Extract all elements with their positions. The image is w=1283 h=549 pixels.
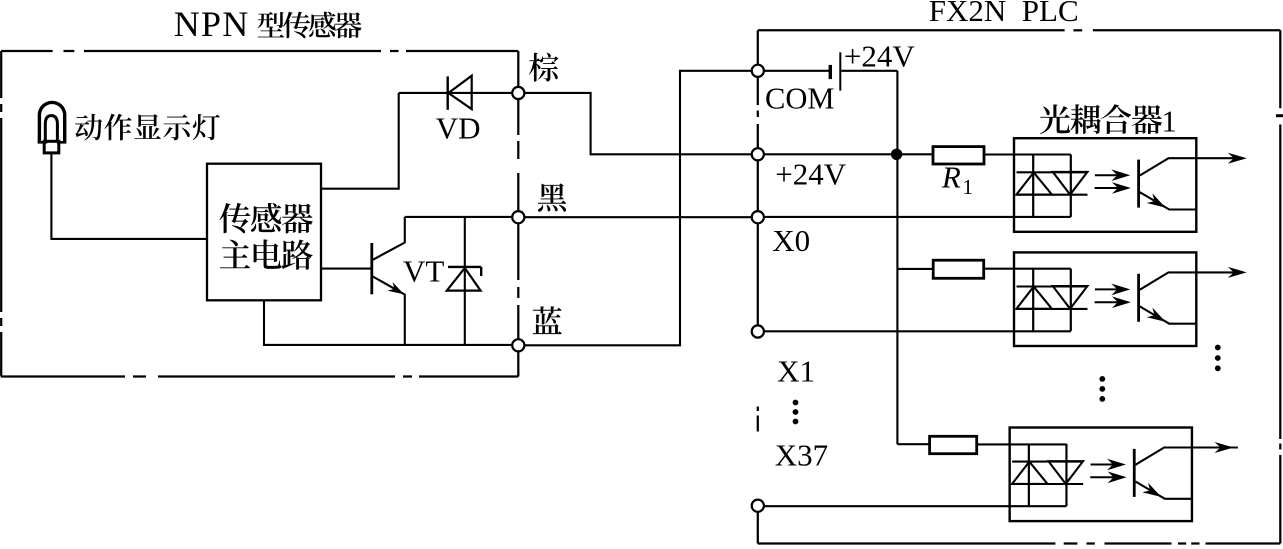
terminal X37: [752, 500, 764, 512]
optocoupler 3 phototransistor: [1134, 448, 1238, 499]
wire: +24V rail to R2: [897, 268, 933, 270]
sensor enclosure dash-dot box (NPN型传感器): [1, 51, 518, 377]
optocoupler 2 LED input bridge: [1016, 269, 1088, 331]
lamp 动作显示灯 indicator: [38, 102, 67, 152]
wire: X1 to optocoupler 2 LED return: [764, 330, 1071, 332]
label: X1: [777, 354, 815, 389]
sensor main circuit box 传感器主电路: [207, 164, 321, 301]
optocoupler 1 light arrows: [1095, 169, 1131, 193]
wire: R3 to optocoupler 3 LED: [977, 443, 1067, 445]
optocoupler 1 phototransistor: [1139, 158, 1243, 209]
terminal X0: [752, 211, 764, 223]
optocoupler 1 box: [1014, 138, 1196, 232]
wire: +24V terminal to R1: [764, 153, 933, 155]
svg-text:X1: X1: [777, 354, 815, 389]
wire: brown 棕 to PLC +24V terminal: [524, 93, 751, 154]
label: X37: [775, 438, 828, 473]
optocoupler 3 box: [1010, 428, 1192, 522]
wire: X37 to optocoupler 3 LED return: [764, 505, 1067, 507]
wire: +24V rail to R3: [897, 443, 929, 445]
terminal 棕 (brown) on sensor boundary: [512, 87, 524, 99]
svg-text:VT: VT: [403, 254, 444, 289]
wire: R2 to optocoupler 2 LED: [984, 268, 1071, 270]
ellipsis middle column: [1099, 376, 1105, 402]
battery +24V source: [764, 52, 898, 90]
optocoupler 3 light arrows: [1090, 459, 1126, 483]
svg-text:COM: COM: [765, 81, 835, 115]
terminal +24V: [752, 148, 764, 160]
resistor R3: [930, 436, 977, 453]
wire: main circuit to VT base: [321, 268, 371, 270]
optocoupler 1 output arrow: [1228, 153, 1247, 164]
optocoupler 1 LED input bridge: [1016, 155, 1088, 217]
label: 动作显示灯: [75, 114, 220, 141]
label: 棕: [529, 53, 558, 82]
label: 蓝: [533, 306, 562, 334]
terminal COM: [752, 65, 764, 77]
terminal X1: [752, 325, 764, 337]
label: 光耦合器1: [1040, 104, 1177, 138]
wire: black net inside sensor (VT collector to 黑 terminal): [405, 216, 513, 218]
title: FX2N PLC: [929, 0, 1079, 28]
PLC enclosure dash-dot box (FX2N PLC): [758, 30, 1283, 543]
ellipsis right column: [1215, 345, 1221, 372]
terminal 黑 (black) on sensor boundary: [512, 211, 524, 223]
svg-text:1: 1: [963, 175, 974, 199]
svg-text:X37: X37: [775, 438, 828, 473]
resistor R2: [933, 260, 984, 278]
label: +24V (battery): [844, 38, 915, 73]
optocoupler 3 LED input bridge: [1012, 444, 1084, 506]
label: 黑: [538, 183, 567, 211]
terminal 蓝 (blue) on sensor boundary: [512, 339, 524, 351]
wire: blue 蓝 to PLC COM terminal: [524, 71, 751, 346]
label R1: [941, 160, 973, 200]
wire: R1 to optocoupler 1 LED: [984, 153, 1071, 155]
transistor VT: [372, 217, 405, 345]
wire: +24V feed vertical rail: [896, 71, 898, 444]
wire: brown net inside sensor (to 棕 terminal): [399, 92, 513, 94]
wire: main circuit to VD branch: [321, 93, 399, 189]
ellipsis between X1 and X37: [793, 400, 799, 425]
wire: lamp to main circuit box: [51, 154, 207, 239]
label VT: [403, 254, 444, 289]
optocoupler 2 output arrow: [1228, 267, 1247, 278]
svg-text:NPN: NPN: [174, 4, 250, 44]
zener diode (VT protection): [447, 217, 481, 345]
svg-text:+24V: +24V: [775, 156, 846, 191]
resistor R1: [933, 147, 984, 164]
svg-text:R: R: [941, 160, 961, 195]
label: +24V (terminal): [775, 156, 846, 191]
wire: X0 to optocoupler 1 LED return: [764, 216, 1071, 218]
wire: black 黑 to PLC X0 terminal: [524, 216, 751, 218]
wire: sensor bottom rail to 蓝 terminal: [264, 300, 512, 345]
svg-text:FX2N PLC: FX2N PLC: [929, 0, 1079, 28]
label: 传感器 (line 1): [219, 203, 312, 233]
optocoupler 2 light arrows: [1095, 284, 1131, 308]
optocoupler 2 box: [1014, 252, 1196, 346]
label VD: [436, 111, 481, 146]
svg-text:+24V: +24V: [844, 38, 915, 73]
optocoupler 3 output arrow: [1215, 442, 1234, 453]
label: 主电路 (line 2): [220, 239, 313, 269]
title: NPN型传感器: [174, 4, 362, 44]
label: X0: [772, 223, 810, 258]
junction dot on +24V rail: [891, 149, 902, 160]
optocoupler 2 phototransistor: [1139, 272, 1243, 323]
svg-text:X0: X0: [772, 223, 810, 258]
svg-text:1: 1: [1162, 104, 1177, 138]
svg-text:VD: VD: [436, 111, 481, 146]
diode VD: [448, 76, 472, 110]
label: COM: [765, 81, 835, 115]
